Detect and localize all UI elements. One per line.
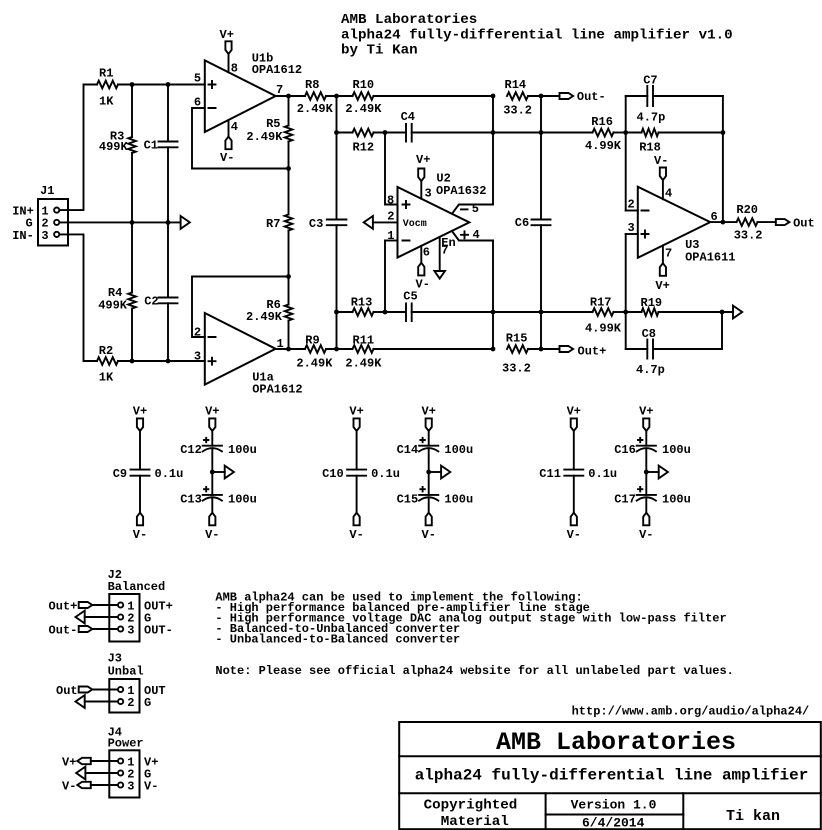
connector J2 <box>108 568 173 642</box>
svg-text:V+: V+ <box>205 405 219 419</box>
svg-text:2: 2 <box>127 696 134 710</box>
wire R12 to C4 <box>374 132 407 134</box>
wire R1 to U1b pin5 <box>118 84 205 86</box>
capacitor C16 <box>614 438 691 457</box>
svg-text:Out+: Out+ <box>578 345 607 359</box>
svg-text:- Unbalanced-to-Balanced conve: - Unbalanced-to-Balanced converter <box>215 632 460 646</box>
wire R10 to node 493 <box>374 95 494 97</box>
resistor R11 <box>345 333 382 370</box>
wire R18 to output column <box>659 132 723 134</box>
J4 G arrow <box>76 767 117 780</box>
svg-text:C11: C11 <box>539 467 561 481</box>
svg-text:V+: V+ <box>567 405 581 419</box>
bypass group 3 V- terminal C17 <box>639 498 653 542</box>
Out flag <box>776 217 815 231</box>
svg-text:3: 3 <box>194 350 201 364</box>
capacitor C1 <box>144 138 178 152</box>
wire R12 left <box>337 132 353 134</box>
svg-text:4.99K: 4.99K <box>585 139 622 153</box>
junction dot group 2 <box>426 470 431 475</box>
capacitor C7 <box>637 74 666 125</box>
wire C5 to node 493 <box>412 311 493 313</box>
svg-text:7: 7 <box>665 246 672 260</box>
svg-text:100u: 100u <box>444 492 473 506</box>
svg-text:V-: V- <box>144 779 158 793</box>
U2 Vocm input arrow <box>364 216 373 229</box>
svg-text:C13: C13 <box>180 492 202 506</box>
svg-text:2.49K: 2.49K <box>345 102 382 116</box>
wire R20 to Out flag <box>758 221 776 223</box>
wire R11 to node 493 <box>374 348 494 350</box>
wire column 493 upper <box>492 96 494 205</box>
svg-text:AMB Laboratories: AMB Laboratories <box>496 728 736 757</box>
wire junction to C17 <box>645 472 647 495</box>
wire junction to arrow group 1 <box>212 471 224 473</box>
wire column 625 lower <box>625 234 627 349</box>
wire R17 to node 625 <box>614 311 626 313</box>
J2 Out+ flag <box>49 599 118 613</box>
svg-text:R13: R13 <box>351 296 373 310</box>
svg-text:V-: V- <box>422 528 436 542</box>
svg-text:R7: R7 <box>266 217 280 231</box>
wire C14 to junction <box>428 449 430 472</box>
wire R13 to C5 <box>374 311 407 313</box>
svg-text:Ti kan: Ti kan <box>726 808 780 825</box>
U1b V+ power terminal <box>220 28 234 72</box>
svg-text:33.2: 33.2 <box>734 229 763 243</box>
svg-text:V-: V- <box>349 528 363 542</box>
resistor R10 <box>345 78 382 116</box>
bypass group 1 V- terminal C9 <box>133 476 147 542</box>
svg-text:4: 4 <box>665 186 672 200</box>
wire J1 pin1 to R1 <box>60 85 97 211</box>
capacitor C5 <box>403 290 417 322</box>
svg-text:V-: V- <box>654 154 668 168</box>
Out+ flag <box>560 345 607 359</box>
svg-text:R8: R8 <box>305 78 319 92</box>
svg-text:100u: 100u <box>662 492 691 506</box>
U2 pin5 output wire <box>452 205 493 214</box>
wire R8 to R10 <box>326 95 353 97</box>
resistor R1 <box>97 67 118 109</box>
svg-text:C1: C1 <box>144 138 158 152</box>
svg-text:V+: V+ <box>416 153 430 167</box>
svg-text:R5: R5 <box>266 117 280 131</box>
wire R5 to feedback row <box>288 142 290 215</box>
svg-text:6/4/2014: 6/4/2014 <box>582 816 645 830</box>
svg-text:4.7p: 4.7p <box>636 363 665 377</box>
svg-text:J3: J3 <box>108 651 122 665</box>
svg-text:1K: 1K <box>99 371 114 385</box>
junction dots U1 outputs <box>286 94 339 352</box>
U2 V- power terminal <box>416 246 430 292</box>
svg-text:0.1u: 0.1u <box>588 467 617 481</box>
svg-text:V+: V+ <box>62 755 76 769</box>
op-amp U1b <box>205 52 302 132</box>
wire output node to R5 <box>288 96 290 126</box>
connector J4 <box>108 725 159 797</box>
wire U1b output <box>276 95 305 97</box>
svg-text:R10: R10 <box>353 78 375 92</box>
svg-text:7: 7 <box>276 83 283 97</box>
capacitor C11 <box>539 467 617 481</box>
svg-text:R18: R18 <box>639 141 661 155</box>
U3 V+ power terminal <box>655 245 669 292</box>
resistor R2 <box>97 344 118 385</box>
wire C8 left <box>626 348 648 350</box>
wire R6 to U1a output row <box>288 321 290 350</box>
junction dots right section <box>623 130 725 314</box>
svg-text:V-: V- <box>639 528 653 542</box>
U2 pin5 labels <box>461 202 479 216</box>
svg-text:OUT-: OUT- <box>144 623 173 637</box>
wire C6 column bottom <box>540 225 542 349</box>
junction J1 area dots <box>130 82 171 363</box>
resistor R19 <box>641 296 663 316</box>
svg-text:V-: V- <box>205 528 219 542</box>
wire C1 column top <box>167 85 169 142</box>
svg-text:C7: C7 <box>643 74 657 88</box>
svg-text:R20: R20 <box>736 203 758 217</box>
svg-text:C8: C8 <box>642 327 656 341</box>
svg-text:6: 6 <box>423 246 430 260</box>
wire C3 column bottom <box>336 225 338 349</box>
wire R15 to Out+ <box>528 348 560 350</box>
resistor R7 <box>266 215 292 232</box>
svg-text:OPA1612: OPA1612 <box>252 63 302 77</box>
arrow G net <box>181 216 190 229</box>
wire U1b pin6 feedback loop <box>192 108 289 169</box>
wire U2 pin8 <box>385 133 398 205</box>
svg-text:R17: R17 <box>590 296 612 310</box>
svg-text:Note: Please see official alph: Note: Please see official alpha24 websit… <box>215 664 733 678</box>
svg-text:alpha24 fully-differential lin: alpha24 fully-differential line amplifie… <box>415 767 809 785</box>
svg-text:R1: R1 <box>99 67 113 81</box>
junction dots middle <box>334 94 543 352</box>
ground arrow En <box>434 271 445 279</box>
resistor R15 <box>502 332 531 376</box>
junction dot group 3 <box>644 470 649 475</box>
svg-text:V+: V+ <box>655 279 669 293</box>
wire U3 output <box>710 221 736 223</box>
bypass group 3 V+ terminal C11 <box>567 405 581 470</box>
svg-text:C2: C2 <box>144 294 158 308</box>
resistor R12 <box>353 129 375 155</box>
svg-text:R11: R11 <box>353 333 375 347</box>
resistor R8 <box>297 78 334 116</box>
svg-text:R19: R19 <box>641 296 663 310</box>
wire Vocm arrow to U2 pin2 <box>373 221 398 223</box>
U2 En pin wire <box>440 236 456 271</box>
svg-text:C9: C9 <box>113 467 127 481</box>
Out- flag <box>560 90 606 104</box>
svg-text:OPA1612: OPA1612 <box>252 383 302 397</box>
svg-text:C12: C12 <box>180 443 202 457</box>
resistor R3 <box>99 130 136 155</box>
svg-text:Out-: Out- <box>49 623 78 637</box>
U1b V- power terminal <box>220 120 234 165</box>
svg-text:100u: 100u <box>228 443 257 457</box>
capacitor C17 <box>614 487 691 506</box>
wire junction to C15 <box>428 472 430 495</box>
svg-text:4.99K: 4.99K <box>585 322 622 336</box>
capacitor C8 <box>636 327 665 377</box>
svg-text:V+: V+ <box>220 28 234 42</box>
resistor R6 <box>246 298 292 324</box>
svg-text:OPA1632: OPA1632 <box>436 184 486 198</box>
wire G to R4 <box>131 222 133 292</box>
capacitor C13 <box>180 487 257 506</box>
svg-text:2.49K: 2.49K <box>345 356 382 370</box>
J3 G arrow <box>76 695 118 708</box>
wire R19 to arrow <box>659 311 734 313</box>
svg-text:2: 2 <box>628 198 635 212</box>
svg-text:3: 3 <box>628 221 635 235</box>
svg-text:499K: 499K <box>98 299 128 313</box>
wire U1a pin2 feedback loop <box>192 277 289 338</box>
svg-text:2.49K: 2.49K <box>296 356 333 370</box>
svg-text:0.1u: 0.1u <box>371 467 400 481</box>
resistor R5 <box>246 117 292 144</box>
svg-text:C5: C5 <box>403 290 417 304</box>
wire R4 to row 361 <box>131 309 133 362</box>
wire R19 left <box>626 311 642 313</box>
svg-text:Balanced: Balanced <box>108 580 166 594</box>
capacitor C12 <box>180 438 257 457</box>
svg-text:V+: V+ <box>639 405 653 419</box>
resistor R17 <box>585 296 622 336</box>
wire C6 column top <box>540 96 542 220</box>
capacitor C15 <box>397 487 474 506</box>
wire J1 pin3 to R2 <box>60 234 97 361</box>
svg-text:G: G <box>144 696 151 710</box>
resistor R16 <box>585 115 622 153</box>
svg-text:4.7p: 4.7p <box>637 111 666 125</box>
wire R9 to R11 <box>326 348 353 350</box>
wire C3 column top <box>336 96 338 220</box>
wire R2 to U1a pin3 <box>118 360 205 362</box>
svg-text:4: 4 <box>231 120 238 134</box>
capacitor C4 <box>401 110 415 142</box>
svg-text:V-: V- <box>133 528 147 542</box>
arrow group 3 <box>659 466 668 479</box>
svg-text:0.1u: 0.1u <box>155 467 184 481</box>
svg-text:5: 5 <box>472 202 479 216</box>
svg-text:Out+: Out+ <box>49 599 78 613</box>
svg-text:3: 3 <box>127 623 134 637</box>
capacitor C14 <box>397 438 474 457</box>
svg-text:R14: R14 <box>505 78 527 92</box>
wire U2 pin1 stub <box>385 240 398 242</box>
svg-text:7: 7 <box>441 243 448 257</box>
svg-text:R9: R9 <box>305 333 319 347</box>
svg-text:C14: C14 <box>397 443 419 457</box>
J3 Out flag <box>56 684 118 698</box>
svg-text:33.2: 33.2 <box>502 361 531 375</box>
svg-text:100u: 100u <box>444 443 473 457</box>
title block frame <box>399 722 821 829</box>
junction dot group 1 <box>210 470 215 475</box>
resistor R14 <box>503 78 532 118</box>
J4 V+ flag <box>62 755 118 769</box>
op-amp U1a <box>205 313 303 397</box>
resistor R4 <box>98 286 136 313</box>
wire junction to C13 <box>211 472 213 495</box>
svg-text:100u: 100u <box>662 443 691 457</box>
bypass group 2 V+ terminal C14 <box>422 405 436 446</box>
svg-text:C17: C17 <box>614 492 636 506</box>
U2 pin4 labels <box>461 228 480 242</box>
wire C12 to junction <box>211 449 213 472</box>
wire output column 722.9 <box>722 96 724 222</box>
wire C7 right to output column <box>653 95 723 97</box>
svg-text:http://www.amb.org/audio/alpha: http://www.amb.org/audio/alpha24/ <box>572 705 810 719</box>
svg-text:2.49K: 2.49K <box>246 130 283 144</box>
arrow group 1 <box>225 466 234 479</box>
svg-text:1K: 1K <box>99 95 114 109</box>
svg-text:C4: C4 <box>401 110 415 124</box>
wire R3 column top <box>131 85 133 138</box>
wire C1 to G <box>167 147 169 222</box>
J2 G arrow <box>76 611 118 624</box>
bypass group 3 V+ terminal C16 <box>639 405 653 446</box>
svg-text:V-: V- <box>62 779 76 793</box>
arrow lower output <box>733 306 742 319</box>
bypass group 1 V- terminal C13 <box>205 498 219 542</box>
resistor R18 <box>639 129 661 155</box>
wire C4 to node 493 <box>412 132 493 134</box>
svg-text:3: 3 <box>41 229 48 243</box>
svg-text:by Ti Kan: by Ti Kan <box>341 43 418 59</box>
svg-text:Vocm: Vocm <box>403 219 427 230</box>
wire R3 to G <box>131 153 133 222</box>
svg-text:2: 2 <box>387 210 394 224</box>
svg-text:alpha24 fully-differential lin: alpha24 fully-differential line amplifie… <box>341 27 733 43</box>
svg-text:Unbal: Unbal <box>108 664 144 678</box>
wire column 625 upper <box>625 96 627 211</box>
capacitor C10 <box>322 467 400 481</box>
wire U3 pin3 <box>626 233 638 235</box>
bypass group 1 V+ terminal C9 <box>133 405 147 470</box>
svg-text:J1: J1 <box>40 184 54 198</box>
U3 V- power terminal <box>654 154 668 199</box>
svg-text:V+: V+ <box>422 405 436 419</box>
svg-text:R15: R15 <box>506 332 528 346</box>
svg-text:C6: C6 <box>515 216 529 230</box>
svg-text:R2: R2 <box>99 344 113 358</box>
svg-text:100u: 100u <box>228 492 257 506</box>
capacitor C9 <box>113 467 184 481</box>
svg-text:Power: Power <box>108 737 144 751</box>
wire R7 to lower feedback row <box>288 231 290 305</box>
bypass group 2 V- terminal C10 <box>349 476 363 542</box>
wire R13 left <box>337 311 353 313</box>
wire G to C2 <box>167 222 169 297</box>
wire R18 left <box>626 132 642 134</box>
svg-text:C3: C3 <box>309 217 323 231</box>
wire U1a output <box>276 348 305 350</box>
wire C16 to junction <box>645 449 647 472</box>
wire junction to arrow group 3 <box>646 471 658 473</box>
capacitor C3 <box>309 217 347 231</box>
capacitor C6 <box>515 216 551 230</box>
svg-text:V-: V- <box>567 528 581 542</box>
wire C2 to row 361 <box>167 303 169 361</box>
svg-text:33.2: 33.2 <box>503 104 532 118</box>
svg-text:Copyrighted: Copyrighted <box>424 798 518 814</box>
J2 Out- flag <box>49 623 118 637</box>
J4 V- flag <box>62 779 118 793</box>
op-amp U3 <box>638 187 736 265</box>
svg-text:8: 8 <box>231 61 238 75</box>
bypass group 3 V- terminal C11 <box>567 476 581 542</box>
svg-text:Out: Out <box>793 217 815 231</box>
bypass group 2 V+ terminal C10 <box>349 405 363 470</box>
resistor R20 <box>734 203 763 243</box>
bypass group 2 V- terminal C15 <box>422 498 436 542</box>
wire row 312 to R17 <box>493 311 593 313</box>
svg-text:R16: R16 <box>591 115 613 129</box>
wire G row <box>60 221 181 223</box>
wire U3 pin2 <box>626 210 638 212</box>
U2 pin4 output wire <box>452 231 493 241</box>
wire C8 right <box>653 312 722 349</box>
svg-text:V+: V+ <box>133 405 147 419</box>
svg-text:2.49K: 2.49K <box>297 102 334 116</box>
wire R16 to node 625 <box>614 132 626 134</box>
wire R14 to Out- <box>528 95 560 97</box>
wire column 493 lower <box>492 241 494 350</box>
svg-text:3: 3 <box>425 187 432 201</box>
title block copyrighted <box>424 798 518 830</box>
svg-text:5: 5 <box>194 72 201 86</box>
svg-text:Out: Out <box>56 684 78 698</box>
svg-text:4: 4 <box>473 228 480 242</box>
U2 V+ power terminal <box>416 153 430 199</box>
svg-text:V-: V- <box>220 151 234 165</box>
svg-text:AMB Laboratories: AMB Laboratories <box>341 12 477 28</box>
svg-text:R12: R12 <box>353 141 375 155</box>
op-amp U2 <box>398 172 487 258</box>
resistor R9 <box>296 333 333 370</box>
wire U2 pin1 <box>384 241 386 313</box>
svg-text:V+: V+ <box>349 405 363 419</box>
svg-text:C16: C16 <box>614 443 636 457</box>
svg-text:C15: C15 <box>397 492 419 506</box>
svg-text:OPA1611: OPA1611 <box>685 251 735 265</box>
resistor R13 <box>351 296 374 316</box>
svg-text:Version 1.0: Version 1.0 <box>571 798 657 813</box>
wire junction to arrow group 2 <box>429 471 441 473</box>
wire row 132 to R16 <box>493 132 593 134</box>
svg-text:C10: C10 <box>322 467 344 481</box>
connector J3 <box>108 651 166 712</box>
capacitor C2 <box>144 294 177 308</box>
wire C7 left <box>626 95 648 97</box>
svg-text:Out-: Out- <box>577 90 606 104</box>
bypass group 1 V+ terminal C12 <box>205 405 219 446</box>
arrow group 2 <box>441 466 450 479</box>
info text block <box>215 590 733 678</box>
svg-text:Material: Material <box>441 814 509 830</box>
connector J1 <box>38 184 68 246</box>
svg-text:IN-: IN- <box>12 229 34 243</box>
svg-text:499K: 499K <box>99 140 129 154</box>
svg-text:3: 3 <box>127 779 134 793</box>
svg-text:2.49K: 2.49K <box>246 310 283 324</box>
